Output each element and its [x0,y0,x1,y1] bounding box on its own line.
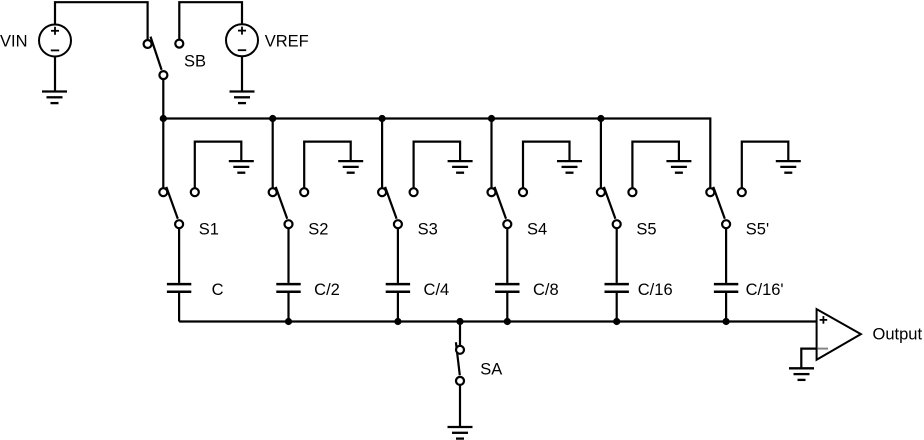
capacitor C/4 [386,284,410,292]
junction bottom bus capacitor C/2 [285,318,292,325]
wire S4 throw B to ground [523,142,570,189]
wire S5' throw B to ground [742,142,789,189]
svg-text:SB: SB [184,53,206,71]
svg-text:C/16': C/16' [746,281,784,299]
wire capacitor C/8 to bottom bus [506,293,508,322]
voltage source VREF [226,24,258,56]
svg-text:S5': S5' [746,220,769,238]
wire SB common to top bus [162,79,164,118]
capacitor C/8 [495,284,519,292]
junction top bus node 1 [160,115,167,122]
wire top bus to S2 throw A [272,119,274,189]
junction bottom bus capacitor C/16 [613,318,620,325]
junction bottom bus SA tap [456,318,463,325]
junction bottom bus capacitor C/16' [723,318,730,325]
ground VREF [230,92,255,104]
svg-text:C/16: C/16 [638,281,673,299]
wire S3 throw B to ground [414,142,461,189]
svg-text:VREF: VREF [265,33,309,51]
svg-text:C: C [212,281,224,299]
ground S5' [776,161,801,173]
capacitor C/16 [605,284,629,292]
switch S2 [269,187,309,228]
wire S2 throw B to ground [304,142,351,189]
ground S3 [448,161,473,173]
svg-text:S5: S5 [636,220,656,238]
svg-text:SA: SA [480,361,502,379]
wire bottom bus [179,320,817,322]
ground VIN [42,92,67,104]
switch SA [456,342,464,385]
svg-text:C/4: C/4 [424,281,450,299]
wire S5 common to capacitor C/16 [616,228,618,283]
capacitor C/2 [276,284,300,292]
wire top bus to S3 throw A [381,119,383,189]
ground S2 [338,161,363,173]
wire S1 common to capacitor C [178,228,180,283]
ground SA [448,427,473,439]
svg-text:VIN: VIN [0,33,28,51]
wire top bus to S1 throw A [162,119,164,189]
wire top bus to S5 throw A [600,119,602,189]
wire capacitor C/16 to bottom bus [616,293,618,322]
op-amp U1 [817,309,861,360]
wire S4 common to capacitor C/8 [506,228,508,283]
wire top bus [163,119,710,189]
wire capacitor C/4 to bottom bus [397,293,399,322]
junction top bus node 2 [269,115,276,122]
wire SA to ground [459,385,461,427]
junction top bus node 4 [488,115,495,122]
wire capacitor C to bottom bus [178,293,180,322]
switch S4 [488,187,528,228]
wire capacitor C/16' to bottom bus [725,293,727,322]
ground S1 [229,161,254,173]
svg-text:C/8: C/8 [533,281,559,299]
switch S5 [597,187,637,228]
svg-text:S2: S2 [308,220,328,238]
capacitor C [167,284,191,292]
svg-text:S1: S1 [199,220,219,238]
switch S1 [159,187,199,228]
switch SB [144,37,184,80]
ground S4 [557,161,582,173]
voltage source VIN [39,25,71,57]
wire VIN bottom to ground [54,57,56,92]
ground op-amp [789,368,814,380]
wire S2 common to capacitor C/2 [287,228,289,283]
svg-text:S4: S4 [527,220,547,238]
ground S5 [666,161,691,173]
svg-text:S3: S3 [418,220,438,238]
wire capacitor C/2 to bottom bus [287,293,289,322]
svg-text:C/2: C/2 [314,281,340,299]
wire bottom bus to SA [459,322,461,346]
wire S5' common to capacitor C/16' [725,228,727,283]
capacitor C/16' [714,284,738,292]
switch S5' [706,187,746,228]
svg-text:Output: Output [873,325,923,343]
wire S5 throw B to ground [632,142,679,189]
wire S3 common to capacitor C/4 [397,228,399,283]
junction bottom bus capacitor C/8 [504,318,511,325]
switch S3 [378,187,418,228]
wire VIN top to SB throw A [55,2,148,40]
junction top bus node 5 [597,115,604,122]
wire S1 throw B to ground [195,142,242,189]
junction top bus node 3 [379,115,386,122]
wire op-amp inverting input to ground [801,349,816,369]
wire top bus to S4 throw A [490,119,492,189]
wire VREF bottom to ground [241,56,243,91]
wire SB throw B to VREF top [179,2,242,39]
junction bottom bus capacitor C/4 [394,318,401,325]
